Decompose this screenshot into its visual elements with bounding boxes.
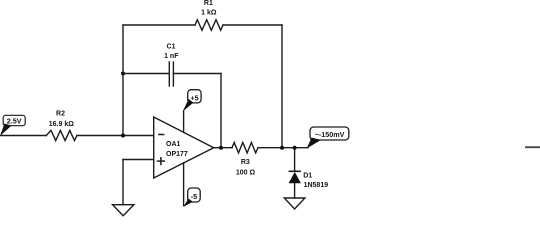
wire: top feedback segment left of R1 bbox=[123, 24, 195, 26]
ground (diode D1) bbox=[284, 198, 305, 209]
svg-text:100 Ω: 100 Ω bbox=[236, 170, 256, 177]
svg-text:R1: R1 bbox=[204, 0, 213, 7]
node: 2.5V input callout bbox=[0, 115, 25, 136]
svg-text:1 nF: 1 nF bbox=[164, 53, 179, 60]
wire: cropped stub at right edge bbox=[525, 146, 540, 148]
resistor R2 bbox=[46, 130, 77, 140]
svg-text:-5: -5 bbox=[191, 192, 197, 201]
junction: C1 tap on left vertical bbox=[121, 72, 125, 76]
svg-text:~-150mV: ~-150mV bbox=[315, 130, 345, 139]
node: output ~-150mV callout bbox=[307, 127, 349, 148]
wire: +5 supply stub bbox=[183, 111, 185, 132]
wire: C1 right vertical to output bbox=[220, 74, 222, 148]
wire: output wire left of R3 bbox=[214, 147, 232, 149]
svg-text:2.5V: 2.5V bbox=[7, 117, 22, 126]
junction: C1 return on output bbox=[219, 146, 223, 150]
svg-text:OA1: OA1 bbox=[166, 141, 181, 148]
ground (non-inverting input) bbox=[113, 205, 134, 216]
wire: -5 supply stub bbox=[183, 163, 185, 206]
svg-text:D1: D1 bbox=[303, 173, 312, 180]
wire: right feedback vertical to output bbox=[281, 25, 283, 148]
wire: diode branch vertical upper bbox=[294, 148, 296, 172]
svg-text:1 kΩ: 1 kΩ bbox=[201, 10, 217, 17]
wire: input wire right of R2 to op-amp inverting input bbox=[77, 135, 154, 137]
wire: output wire right of R3 bbox=[258, 147, 308, 149]
diode D1 bbox=[289, 171, 301, 183]
svg-text:16.9 kΩ: 16.9 kΩ bbox=[49, 121, 74, 128]
wire: non-inverting input horizontal bbox=[123, 159, 154, 161]
wire: non-inverting input vertical to ground bbox=[122, 160, 124, 205]
wire: C1 branch left segment bbox=[123, 73, 169, 75]
resistor R3 bbox=[232, 143, 258, 153]
svg-text:+5: +5 bbox=[190, 94, 198, 103]
junction: diode tap on output bbox=[293, 146, 297, 150]
wire: C1 branch right segment bbox=[173, 73, 221, 75]
op-amp OA1 bbox=[154, 117, 214, 178]
svg-text:OP177: OP177 bbox=[166, 151, 188, 158]
power -5 callout bbox=[183, 188, 200, 207]
junction: R1 return on output bbox=[280, 146, 284, 150]
wire: top feedback segment right of R1 bbox=[223, 24, 282, 26]
svg-text:C1: C1 bbox=[167, 44, 176, 51]
svg-text:R3: R3 bbox=[241, 159, 250, 166]
wire: diode branch vertical lower bbox=[294, 183, 296, 198]
capacitor C1 bbox=[169, 62, 173, 86]
power +5 callout bbox=[183, 90, 201, 112]
svg-text:R2: R2 bbox=[56, 111, 65, 118]
wire: input wire left of R2 bbox=[0, 135, 46, 137]
svg-text:1N5819: 1N5819 bbox=[304, 182, 329, 189]
wire: left feedback vertical bbox=[122, 25, 124, 136]
junction: inverting input node bbox=[121, 134, 125, 138]
resistor R1 bbox=[195, 20, 223, 31]
